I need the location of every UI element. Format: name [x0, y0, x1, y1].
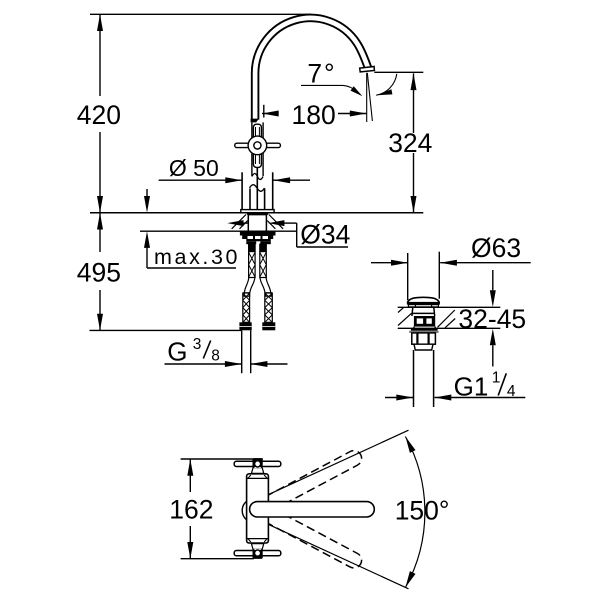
- top view swivel rays: [263, 430, 409, 589]
- top view spout (solid): [250, 502, 375, 517]
- top view: 162 extension lines: [181, 458, 263, 460]
- svg-text:Ø63: Ø63: [471, 233, 521, 263]
- swivel arc arrowheads: [405, 437, 415, 453]
- supply pipe below left hose: [242, 330, 251, 373]
- svg-text:G1: G1: [454, 371, 489, 401]
- braided hose right: [265, 293, 273, 322]
- counter hatch left of drain: [398, 308, 412, 326]
- hose end cap left: [239, 322, 251, 330]
- top view handle top: bar: [234, 461, 281, 466]
- svg-text:8: 8: [211, 348, 220, 365]
- faucet body outline: [242, 167, 273, 209]
- dimension 34 diameter leader: [227, 220, 348, 247]
- top view handle top: hub: [253, 458, 263, 468]
- dimension 180: [262, 105, 367, 118]
- handle cross vertical arm: [253, 124, 261, 167]
- drain cap skirt: [408, 305, 438, 307]
- dimension line 162: [187, 459, 193, 559]
- threaded stud left: [249, 244, 256, 277]
- dimension G 3/8: [165, 361, 288, 367]
- dimension G1 1/4: [385, 395, 525, 401]
- water stream vertical reference line: [366, 73, 368, 122]
- body base flange: [241, 210, 274, 213]
- counter section hatch left of shank: [232, 215, 248, 229]
- shank shadow below counter: [247, 213, 268, 215]
- spout tube dark collar: [251, 119, 259, 123]
- locknut band 2 with slots: [242, 236, 273, 240]
- svg-text:max.30: max.30: [154, 245, 240, 269]
- handle hub: [248, 136, 267, 155]
- top view faucet cylinder: [247, 474, 269, 543]
- locknut band 4 split: [246, 241, 256, 244]
- body break wave upper: [252, 174, 263, 180]
- dashed spout position lower: [247, 499, 364, 571]
- dimension line 420: [97, 14, 103, 213]
- spout tube arc: [255, 18, 369, 120]
- svg-text:1: 1: [492, 370, 501, 387]
- top view handle bottom: bar: [234, 551, 281, 556]
- label G1 1/4: [454, 370, 516, 402]
- extension line top (420 upper): [90, 13, 311, 15]
- counter band bottom line: [398, 327, 501, 329]
- svg-text:495: 495: [77, 257, 121, 287]
- hose transition curves: [244, 278, 270, 294]
- mounting locknut band 1: [240, 231, 276, 235]
- locknut band 3: [246, 239, 270, 241]
- drain cone ring: [414, 344, 433, 350]
- square mounting shank: [248, 215, 266, 232]
- counter bottom line (max.30): [140, 230, 296, 232]
- dimension line 495: [97, 213, 103, 331]
- dimension 63 diameter: [371, 260, 531, 266]
- hose end cap right: [262, 322, 275, 330]
- dimension 50 diameter: [159, 177, 310, 183]
- drain: extension lines for 63 diameter: [407, 253, 409, 300]
- counter band top line: [398, 306, 501, 308]
- svg-text:420: 420: [77, 100, 121, 130]
- water stream 7 deg line: [367, 73, 372, 121]
- drain locknut: [412, 333, 436, 344]
- svg-text:7: 7: [307, 58, 322, 88]
- angle arc 7 deg: [376, 74, 397, 95]
- threaded stud right: [260, 244, 267, 277]
- svg-text:Ø 50: Ø 50: [169, 155, 219, 181]
- svg-text:32-45: 32-45: [458, 304, 526, 334]
- swivel arc 150 deg: [405, 437, 424, 588]
- top view handle bottom: stem: [251, 544, 263, 550]
- extension line from spout outlet (324 upper): [374, 71, 423, 73]
- dashed spout position upper: [247, 448, 364, 520]
- top view swivel collar bump: [242, 501, 246, 520]
- braided hose left: [243, 293, 250, 322]
- drain valve body: [412, 307, 435, 316]
- drain seal flange: [411, 328, 438, 330]
- svg-text:Ø34: Ø34: [300, 220, 350, 250]
- angle arc arrowhead: [376, 89, 393, 95]
- svg-text:4: 4: [507, 383, 516, 400]
- drain tailpipe: [414, 350, 434, 407]
- counter section hatch right of shank: [267, 215, 283, 229]
- dimension 32-45 arrows: [490, 270, 496, 367]
- body break wave lower: [250, 185, 265, 192]
- svg-text:G: G: [167, 336, 187, 366]
- drain valve window band: [414, 316, 435, 327]
- aerator at spout tip: [360, 67, 375, 72]
- extension line bottom (495 lower): [90, 329, 242, 331]
- svg-text:3: 3: [193, 336, 202, 353]
- hose crimp collar left: [243, 292, 250, 297]
- dimension line 324: [411, 73, 417, 212]
- drain cap dome: [407, 297, 439, 303]
- countertop line: [90, 212, 423, 214]
- svg-text:°: °: [324, 58, 335, 88]
- svg-text:162: 162: [169, 495, 213, 525]
- counter hatch right of drain: [438, 310, 456, 328]
- svg-text:324: 324: [388, 128, 432, 158]
- svg-text:150°: 150°: [395, 495, 450, 525]
- hose crimp collar right: [265, 292, 272, 297]
- leader for 7 deg: [301, 85, 363, 96]
- cartridge sleeve: [252, 122, 263, 176]
- svg-text:180: 180: [291, 100, 335, 130]
- label G 3/8: [167, 336, 220, 367]
- top view handle bottom: hub: [253, 549, 263, 559]
- dimension max.30: [144, 189, 236, 268]
- top view handle top: stem: [251, 468, 263, 474]
- handle cross horizontal bar: [235, 143, 281, 147]
